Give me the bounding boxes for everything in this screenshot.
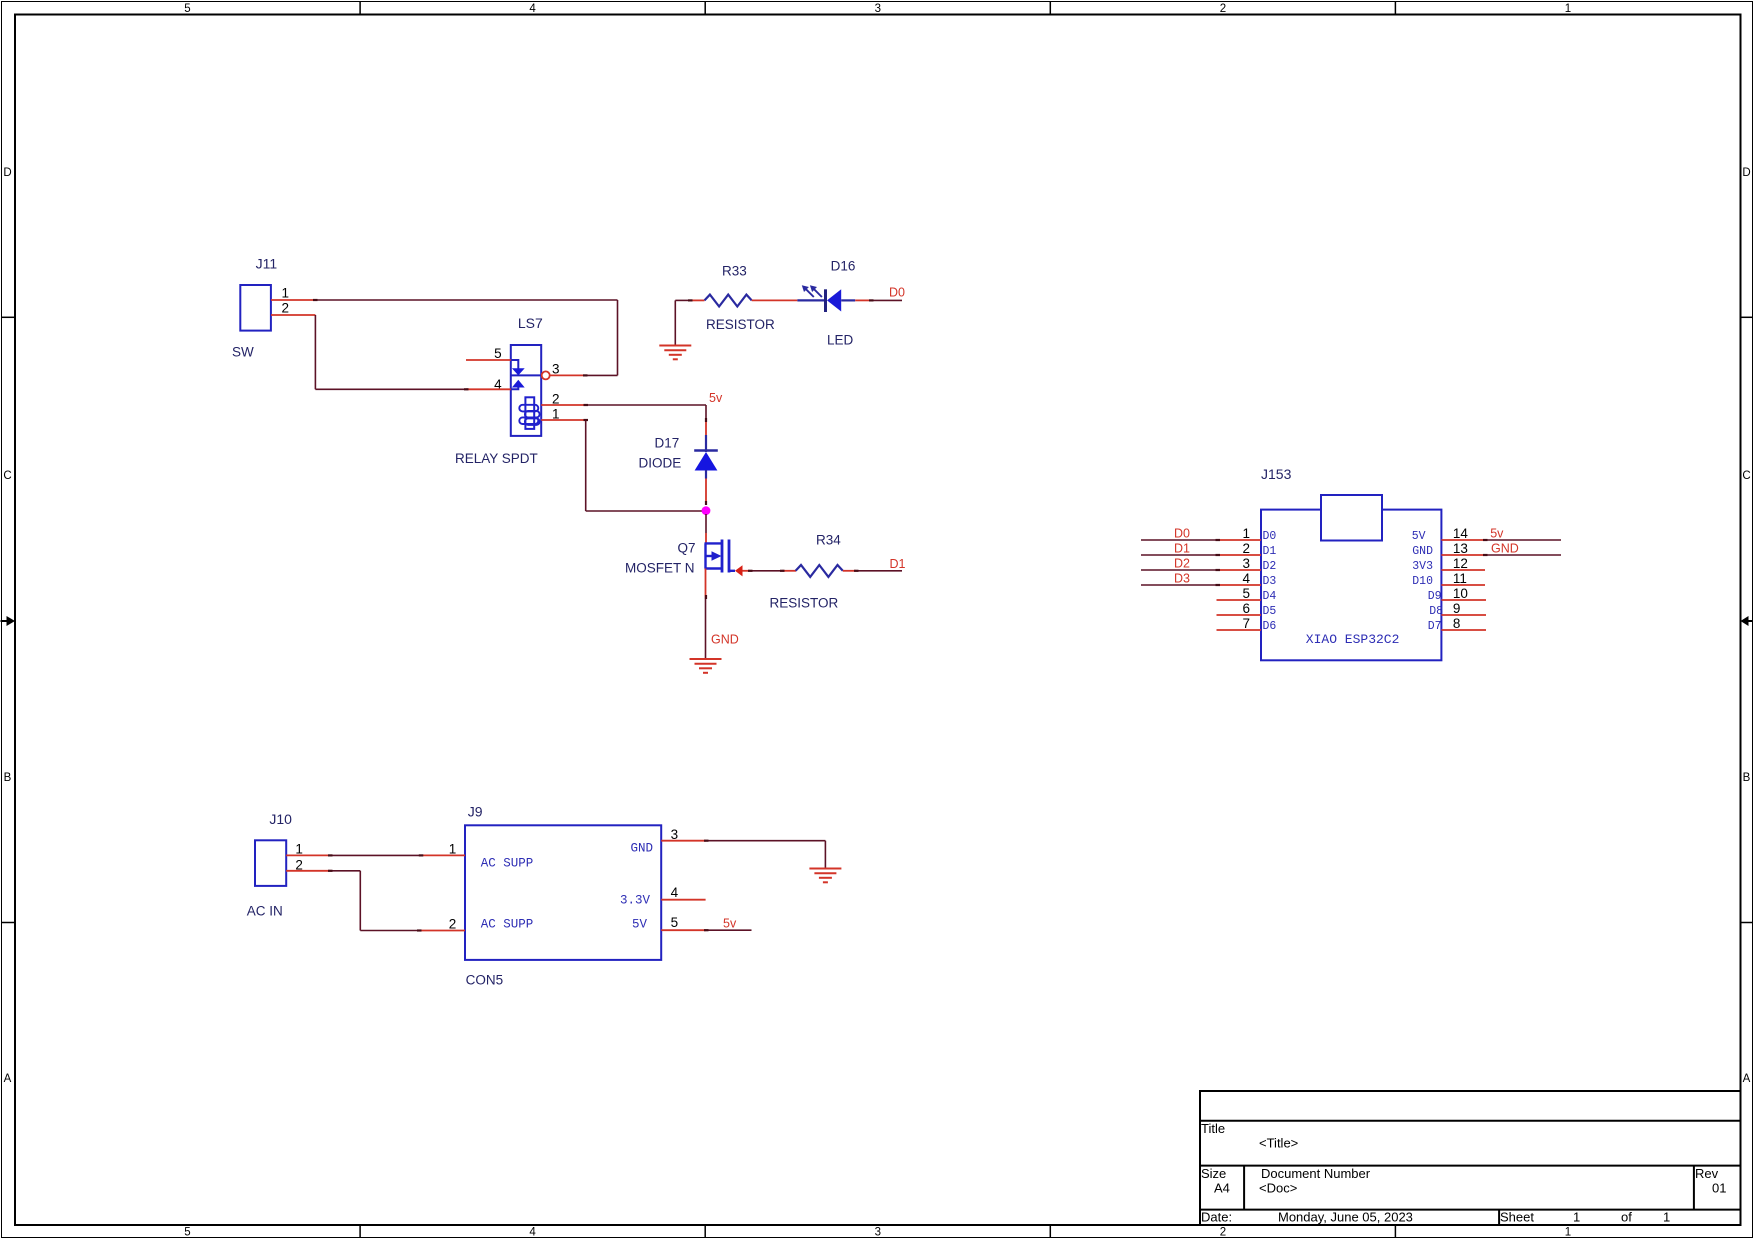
svg-text:Q7: Q7 — [678, 541, 696, 556]
wire J11.1 to corner — [315, 299, 618, 301]
J11 pin 1 stub — [271, 299, 315, 301]
svg-text:D0: D0 — [889, 286, 905, 300]
svg-text:D2: D2 — [1263, 560, 1277, 573]
J153 pin 3 stub — [1218, 569, 1261, 571]
wire net D0 — [1141, 539, 1218, 541]
resistor R33 — [705, 295, 752, 307]
svg-text:Sheet: Sheet — [1500, 1210, 1534, 1225]
svg-text:11: 11 — [1453, 571, 1467, 586]
diode D17 — [694, 435, 718, 479]
svg-text:5V: 5V — [1412, 530, 1426, 543]
svg-text:CON5: CON5 — [466, 972, 504, 987]
J153 left pin names — [1263, 530, 1277, 633]
svg-text:A: A — [4, 1073, 12, 1085]
svg-text:14: 14 — [1453, 526, 1469, 541]
svg-text:D2: D2 — [1174, 557, 1190, 571]
LS7 internal contact pin4 step and up-arrow — [511, 380, 525, 390]
svg-text:D5: D5 — [1263, 605, 1277, 618]
svg-text:3: 3 — [1242, 556, 1250, 571]
J153 pin 1 stub — [1218, 539, 1261, 541]
svg-text:3: 3 — [671, 827, 679, 842]
module J153 body — [1261, 510, 1441, 661]
wire to LS7 pin 3 — [585, 374, 618, 376]
wire 5v corner down to diode — [705, 405, 707, 420]
svg-text:D1: D1 — [1263, 545, 1277, 558]
wire net D3 — [1141, 584, 1218, 586]
svg-text:D7: D7 — [1428, 620, 1442, 633]
svg-text:D3: D3 — [1174, 572, 1190, 586]
svg-text:D3: D3 — [1263, 575, 1277, 588]
svg-text:J9: J9 — [468, 803, 483, 819]
J153 pin 14 stub — [1441, 539, 1485, 541]
svg-text:Date:: Date: — [1201, 1210, 1232, 1225]
wire R33 left to ground corner — [675, 300, 690, 345]
svg-text:12: 12 — [1453, 556, 1468, 571]
wire to LS7 pin 4 — [315, 388, 466, 390]
svg-text:3: 3 — [875, 3, 881, 15]
Q7 source stub — [705, 569, 707, 598]
LS7 pin 3 bubble — [542, 371, 550, 379]
sheet center marker arrow right — [1741, 616, 1753, 626]
svg-text:3: 3 — [552, 362, 560, 377]
svg-text:4: 4 — [1242, 571, 1250, 586]
LS7 pin 4 stub — [466, 388, 511, 390]
svg-text:5v: 5v — [1490, 527, 1504, 541]
J153 top notch — [1321, 495, 1382, 541]
J153 right pin names — [1412, 530, 1443, 633]
J153 pin 8 stub — [1441, 629, 1486, 631]
svg-text:J11: J11 — [256, 256, 278, 272]
svg-text:D1: D1 — [1174, 542, 1190, 556]
wire LS7.1 down and to junction — [586, 420, 706, 511]
svg-text:B: B — [4, 772, 12, 784]
J153 pin 13 stub — [1441, 554, 1485, 556]
svg-text:D4: D4 — [1263, 590, 1277, 603]
svg-text:3V3: 3V3 — [1412, 560, 1433, 573]
svg-text:2: 2 — [1220, 3, 1226, 15]
svg-text:1: 1 — [1663, 1210, 1670, 1225]
svg-text:1: 1 — [295, 842, 303, 857]
ground symbol at Q7 source — [690, 659, 722, 673]
svg-text:8: 8 — [1453, 616, 1461, 631]
J10 pin 1 stub — [286, 854, 330, 856]
R33 left stub — [690, 299, 705, 301]
D17 anode stub — [705, 420, 707, 436]
svg-text:5: 5 — [184, 3, 190, 15]
svg-text:5: 5 — [494, 346, 502, 361]
R34 left stub — [782, 570, 796, 572]
svg-text:Rev: Rev — [1695, 1166, 1719, 1181]
svg-text:3.3V: 3.3V — [620, 894, 651, 908]
svg-text:D: D — [1742, 167, 1750, 179]
svg-text:D1: D1 — [890, 557, 906, 571]
svg-text:4: 4 — [529, 1227, 536, 1239]
D16 emission arrow 2 — [810, 285, 822, 297]
J9 internal pin names — [481, 857, 534, 932]
svg-text:1: 1 — [1565, 3, 1571, 15]
svg-text:GND: GND — [630, 842, 653, 856]
LS7 pin 3 stub — [550, 374, 585, 376]
svg-text:1: 1 — [1565, 1227, 1571, 1239]
svg-text:D0: D0 — [1174, 527, 1190, 541]
svg-text:1: 1 — [282, 285, 290, 300]
LS7 internal contact pin5 step and down-arrow — [511, 360, 525, 375]
wire corner down to LS7.3 level — [617, 300, 619, 375]
svg-text:4: 4 — [529, 3, 536, 15]
svg-text:9: 9 — [1453, 601, 1461, 616]
LED D16 — [797, 289, 855, 312]
svg-text:RESISTOR: RESISTOR — [770, 596, 839, 611]
svg-text:C: C — [1742, 470, 1750, 482]
svg-text:<Doc>: <Doc> — [1259, 1181, 1297, 1196]
svg-text:J10: J10 — [269, 811, 292, 827]
svg-text:AC SUPP: AC SUPP — [481, 918, 534, 932]
svg-text:RESISTOR: RESISTOR — [706, 317, 775, 332]
svg-text:AC IN: AC IN — [247, 904, 283, 919]
R34 right stub — [843, 570, 856, 572]
sheet center marker arrow left — [1, 616, 16, 626]
wire J11.2 corner — [314, 315, 316, 389]
Q7 drain stub — [705, 533, 707, 543]
connector J11 — [240, 285, 271, 331]
D17 cathode stub — [705, 479, 707, 504]
svg-text:MOSFET N: MOSFET N — [625, 561, 695, 576]
svg-text:5: 5 — [1242, 586, 1250, 601]
svg-text:R33: R33 — [722, 264, 747, 279]
svg-text:GND: GND — [711, 633, 739, 647]
svg-text:GND: GND — [1412, 545, 1433, 558]
wire net 5v right — [1485, 539, 1561, 541]
svg-text:AC SUPP: AC SUPP — [481, 857, 534, 871]
J153 pin 2 stub — [1218, 554, 1261, 556]
wire source to ground — [705, 597, 707, 659]
svg-text:DIODE: DIODE — [639, 456, 682, 471]
J153 pin 11 stub — [1441, 584, 1485, 586]
svg-text:Title: Title — [1201, 1121, 1225, 1136]
Q7 gate stub — [743, 570, 751, 572]
svg-text:A: A — [1743, 1073, 1751, 1085]
resistor R34 — [796, 565, 843, 577]
J153 pin 12 stub — [1441, 569, 1485, 571]
wire J9.5 to 5v — [706, 929, 752, 931]
LS7 pin 5 stub — [466, 359, 511, 361]
svg-text:01: 01 — [1712, 1181, 1726, 1196]
svg-text:LS7: LS7 — [518, 315, 543, 331]
svg-text:Monday, June 05, 2023: Monday, June 05, 2023 — [1278, 1210, 1413, 1225]
J9 pin 5 stub — [661, 929, 706, 931]
svg-text:Document Number: Document Number — [1261, 1166, 1371, 1181]
D16 right stub — [855, 299, 871, 301]
title block text — [1201, 1121, 1726, 1225]
svg-text:C: C — [3, 470, 11, 482]
svg-text:5: 5 — [671, 915, 679, 930]
transistor Q7 MOSFET N — [705, 540, 736, 573]
R33 right stub — [752, 299, 798, 301]
J9 pin 1 stub — [421, 854, 465, 856]
J153 pin 6 stub — [1217, 614, 1262, 616]
J153 pin 9 stub — [1441, 614, 1486, 616]
svg-text:5v: 5v — [709, 391, 723, 405]
Q7 gate pin arrow — [735, 565, 743, 576]
svg-text:GND: GND — [1491, 542, 1519, 556]
svg-text:LED: LED — [827, 333, 854, 348]
svg-text:D16: D16 — [831, 258, 856, 273]
J11 pin 2 stub — [271, 314, 315, 316]
svg-text:6: 6 — [1242, 601, 1250, 616]
J153 pin 10 stub — [1441, 599, 1486, 601]
svg-text:2: 2 — [449, 917, 457, 932]
J10 pin 2 stub — [286, 870, 330, 872]
wire net D1 — [1141, 554, 1218, 556]
J9 pin 4 stub — [661, 899, 705, 901]
svg-text:10: 10 — [1453, 586, 1468, 601]
J153 right pin numbers — [1453, 526, 1469, 631]
J153 pin 7 stub — [1217, 629, 1262, 631]
svg-text:7: 7 — [1242, 616, 1250, 631]
wire net D2 — [1141, 569, 1218, 571]
J153 left pin numbers — [1242, 526, 1250, 631]
LS7 coil symbol — [519, 397, 539, 429]
ground symbol at J9.3 — [809, 869, 841, 883]
J9 pin 2 stub — [419, 930, 465, 932]
svg-text:of: of — [1621, 1210, 1632, 1225]
svg-text:XIAO ESP32C2: XIAO ESP32C2 — [1306, 632, 1400, 647]
title block — [1200, 1091, 1741, 1225]
J9 pin 3 stub — [661, 840, 706, 842]
wire junction ticks — [313, 300, 1488, 931]
svg-text:D10: D10 — [1412, 575, 1433, 588]
svg-text:5v: 5v — [723, 917, 737, 931]
svg-text:D8: D8 — [1429, 605, 1443, 618]
svg-text:5V: 5V — [632, 918, 648, 932]
svg-text:D: D — [3, 167, 11, 179]
J153 pin 4 stub — [1218, 584, 1261, 586]
svg-text:Size: Size — [1201, 1166, 1226, 1181]
wire LED to D0 — [871, 299, 902, 301]
svg-text:RELAY SPDT: RELAY SPDT — [455, 451, 538, 466]
svg-text:1: 1 — [449, 842, 457, 857]
svg-text:1: 1 — [1242, 526, 1250, 541]
wire gate to R34 — [750, 570, 782, 572]
LS7 pin 2 stub — [541, 404, 585, 406]
svg-text:D17: D17 — [655, 436, 680, 451]
connector J10 — [255, 840, 286, 886]
svg-text:J153: J153 — [1261, 466, 1292, 482]
svg-text:A4: A4 — [1214, 1181, 1230, 1196]
ground symbol at R33 — [659, 346, 691, 360]
J153 pin 5 stub — [1217, 599, 1262, 601]
svg-text:2: 2 — [1242, 541, 1250, 556]
J9 internal right pin names — [620, 842, 653, 932]
svg-text:D0: D0 — [1263, 530, 1277, 543]
junction node — [702, 506, 711, 515]
svg-text:<Title>: <Title> — [1259, 1136, 1298, 1151]
wire J10.2 corner — [330, 871, 419, 931]
svg-text:2: 2 — [282, 300, 290, 315]
svg-text:D9: D9 — [1428, 590, 1442, 603]
svg-text:D6: D6 — [1263, 620, 1277, 633]
svg-text:SW: SW — [232, 345, 254, 360]
Q7 body arrow — [712, 551, 722, 560]
svg-text:13: 13 — [1453, 541, 1468, 556]
svg-text:4: 4 — [671, 885, 679, 900]
module J9 body — [465, 825, 661, 960]
wire R34 to D1 — [856, 570, 902, 572]
svg-text:1: 1 — [1573, 1210, 1580, 1225]
svg-text:B: B — [1743, 772, 1751, 784]
svg-text:2: 2 — [1220, 1227, 1226, 1239]
net 5v wire from LS7.2 — [586, 404, 707, 406]
D16 emission arrow 1 — [802, 285, 814, 297]
LS7 pin 1 stub — [541, 419, 586, 421]
wire J9.3 to ground — [706, 841, 825, 869]
relay LS7 body — [511, 345, 541, 436]
wire J10.1 to J9.1 — [330, 854, 421, 856]
svg-text:3: 3 — [875, 1227, 881, 1239]
wire junction down — [705, 514, 707, 533]
svg-text:5: 5 — [184, 1227, 190, 1239]
wire net GND right — [1485, 554, 1561, 556]
svg-text:R34: R34 — [816, 533, 841, 548]
